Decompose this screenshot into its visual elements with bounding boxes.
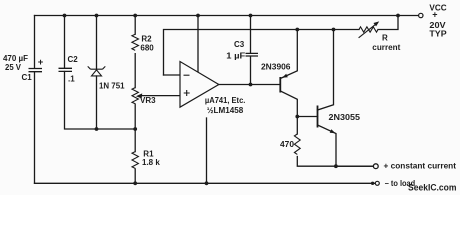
svg-text:C2: C2 <box>68 55 79 64</box>
svg-text:current: current <box>372 43 400 52</box>
wire op-amp V- pin <box>206 118 208 183</box>
svg-text:+: + <box>38 57 44 68</box>
svg-text:1.8 k: 1.8 k <box>142 158 160 167</box>
transistor Q1 2N3906 <box>280 74 288 93</box>
node 2N3055 emitter/output line <box>334 164 338 168</box>
capacitor C1 <box>29 69 43 72</box>
svg-text:2N3906: 2N3906 <box>261 63 291 72</box>
wire 2N3055 base <box>297 116 317 118</box>
wire C3 branch <box>250 16 252 85</box>
wire bottom ground rail <box>35 182 376 184</box>
wire inverting input <box>164 74 181 76</box>
resistor R2 <box>132 34 139 50</box>
node 2N3055 collector/sense rail <box>332 28 336 32</box>
svg-text:680: 680 <box>140 44 154 53</box>
transistor Q2 2N3055 <box>318 106 336 134</box>
wire zener column <box>96 16 98 130</box>
rheostat R current <box>359 21 380 37</box>
wire top VCC rail <box>35 15 419 17</box>
node 2N3906 collector/470/base <box>295 115 299 119</box>
svg-text:R2: R2 <box>141 34 152 43</box>
node op-amp V+/VCC <box>196 14 200 18</box>
node R2/VCC <box>133 14 137 18</box>
node before load terminal <box>371 182 374 185</box>
svg-text:VR3: VR3 <box>140 96 156 105</box>
terminal VCC <box>419 13 423 17</box>
svg-text:TYP: TYP <box>429 30 447 39</box>
svg-text:2N3055: 2N3055 <box>329 113 361 122</box>
node VR3/R1 <box>133 127 137 131</box>
node zener/divider <box>95 127 99 131</box>
svg-text:.1: .1 <box>68 75 75 84</box>
VR3 wiper arrow <box>136 93 142 98</box>
wire left column through C1 <box>34 16 36 184</box>
terminal to load <box>375 181 379 185</box>
potentiometer VR3 <box>132 88 138 104</box>
svg-text:25 V: 25 V <box>5 63 22 72</box>
wire R2/VR3/R1 column <box>134 16 136 184</box>
wire 2N3055 collector riser <box>318 30 334 111</box>
node C2/VCC <box>63 14 67 18</box>
node zener/VCC <box>95 14 99 18</box>
node op-amp V-/ground rail <box>205 181 209 185</box>
svg-text:µA741, Etc.: µA741, Etc. <box>205 96 246 105</box>
wire feedback / sense rail <box>164 16 399 76</box>
resistor R1 <box>132 152 138 169</box>
capacitor C2 <box>59 68 73 71</box>
svg-text:½LM1458: ½LM1458 <box>207 106 244 115</box>
wire 2N3906 emitter riser <box>280 30 297 79</box>
zener diode 1N751 <box>88 66 106 76</box>
svg-text:C1: C1 <box>22 73 33 82</box>
wire op-amp output <box>219 84 280 86</box>
svg-text:470: 470 <box>280 140 295 149</box>
node 2N3906 emitter/sense rail <box>295 28 299 32</box>
resistor 470 <box>294 134 300 154</box>
terminal constant current <box>373 164 378 169</box>
wire 470 resistor branch <box>297 117 373 167</box>
op-amp U1 <box>180 62 219 108</box>
svg-text:R: R <box>382 33 388 42</box>
svg-text:+ constant current: + constant current <box>384 162 457 171</box>
wire non-inverting input from VR3 wiper <box>140 95 181 97</box>
node C3/VCC <box>249 14 253 18</box>
wire 2N3906 collector riser <box>280 91 297 117</box>
wire constant current line <box>336 165 373 167</box>
wire op-amp V+ pin <box>197 16 199 73</box>
svg-text:R1: R1 <box>143 150 154 159</box>
svg-text:SeekIC.com: SeekIC.com <box>408 183 457 194</box>
node R current/VCC <box>396 14 400 18</box>
node R1/ground rail <box>133 181 137 185</box>
wire 2N3055 emitter to output terminal <box>318 125 337 166</box>
svg-text:+: + <box>432 10 437 20</box>
svg-text:470 µF: 470 µF <box>3 54 28 63</box>
capacitor C3 <box>246 53 259 56</box>
svg-text:1N 751: 1N 751 <box>99 82 125 91</box>
wire C2 column <box>65 16 136 130</box>
svg-text:1 µF: 1 µF <box>226 52 245 61</box>
svg-text:C3: C3 <box>234 40 245 49</box>
node C3/output <box>249 83 253 87</box>
